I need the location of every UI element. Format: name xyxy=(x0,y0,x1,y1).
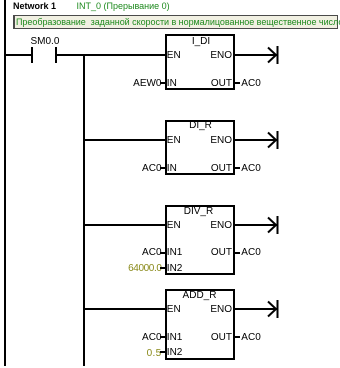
network comment text xyxy=(16,18,340,27)
title DI_R xyxy=(166,121,236,131)
branch wire to DI_R xyxy=(85,139,165,141)
pin EN (DI_R) xyxy=(167,136,181,146)
pin dash OUT (DI_R) xyxy=(235,167,240,169)
pin IN2 (DIV_R) xyxy=(167,264,183,274)
ENO wire (DIV_R) xyxy=(235,224,277,226)
open branch arrow (DIV_R) xyxy=(266,215,280,235)
box DI_R xyxy=(165,120,235,175)
value 64000.0 xyxy=(112,264,162,274)
operand AEW0 xyxy=(112,79,162,89)
pin dash AEW0-IN xyxy=(160,82,165,84)
pin dash OUT (DIV_R) xyxy=(235,252,240,254)
network title "Network 1" xyxy=(13,2,56,11)
open branch arrow (DI_R) xyxy=(266,130,280,150)
pin IN2 (ADD_R) xyxy=(167,348,183,358)
operand AC0 in (DI_R) xyxy=(112,164,162,174)
operand AC0 out (DIV_R) xyxy=(241,248,260,258)
pin IN (I_DI) xyxy=(167,79,177,89)
operand AC0 out (DI_R) xyxy=(241,164,260,174)
contact SM0.0 right bar xyxy=(55,47,57,64)
pin dash AC0-IN (DI_R) xyxy=(160,167,165,169)
pin dash OUT (I_DI) xyxy=(235,82,240,84)
pin IN1 (DIV_R) xyxy=(167,248,183,258)
pin dash AC0-IN1 (DIV_R) xyxy=(160,252,165,254)
pin OUT (DIV_R) xyxy=(197,248,232,258)
pin ENO (ADD_R) xyxy=(197,305,232,315)
wire contact to block I_DI xyxy=(57,54,165,56)
open branch arrow (I_DI) xyxy=(266,45,280,65)
open branch arrow (ADD_R) xyxy=(266,299,280,319)
pin OUT (I_DI) xyxy=(197,79,232,89)
pin EN (ADD_R) xyxy=(167,305,181,315)
pin dash OUT (ADD_R) xyxy=(235,336,240,338)
wire rail to contact xyxy=(6,54,32,56)
pin IN (DI_R) xyxy=(167,164,177,174)
operand AC0 in (DIV_R) xyxy=(112,248,162,258)
pin OUT (DI_R) xyxy=(197,164,232,174)
ENO wire (ADD_R) xyxy=(235,308,277,310)
pin dash 0.5-IN2 (ADD_R) xyxy=(160,351,165,353)
contact SM0.0 left bar xyxy=(31,47,33,64)
ENO wire (I_DI) xyxy=(235,54,277,56)
ENO wire (DI_R) xyxy=(235,139,277,141)
branch wire to DIV_R xyxy=(85,224,165,226)
operand AC0 in (ADD_R) xyxy=(112,333,162,343)
value 0.5 xyxy=(112,349,162,359)
pin ENO (DI_R) xyxy=(197,136,232,146)
operand AC0 out (I_DI) xyxy=(241,79,260,89)
box DIV_R xyxy=(165,205,235,275)
title ADD_R xyxy=(165,291,235,301)
pin ENO (I_DI) xyxy=(197,51,232,61)
title I_DI xyxy=(166,37,236,47)
pin EN (I_DI) xyxy=(167,51,181,61)
pin EN (DIV_R) xyxy=(167,221,181,231)
left power rail xyxy=(4,0,6,366)
pin OUT (ADD_R) xyxy=(197,333,232,343)
box ADD_R xyxy=(165,289,235,360)
branch wire to ADD_R xyxy=(85,308,165,310)
title DIV_R xyxy=(164,207,234,217)
operand AC0 out (ADD_R) xyxy=(241,333,260,343)
pin dash AC0-IN1 (ADD_R) xyxy=(160,336,165,338)
contact SM0.0 label xyxy=(31,37,60,47)
branch vertical line xyxy=(83,54,85,366)
network subtitle INT_0 xyxy=(77,2,170,11)
box I_DI xyxy=(165,34,235,90)
pin IN1 (ADD_R) xyxy=(167,333,183,343)
network comment box xyxy=(13,15,338,29)
pin ENO (DIV_R) xyxy=(197,221,232,231)
pin dash 64000.0-IN2 (DIV_R) xyxy=(160,267,165,269)
